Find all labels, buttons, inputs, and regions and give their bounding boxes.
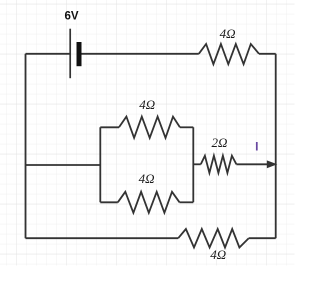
wire: middle horizontal to parallel block: [26, 164, 101, 166]
battery V1 thin plate (positive): [69, 29, 71, 78]
arrowhead (current direction): [267, 160, 278, 168]
resistor R3 4ohm (parallel bottom): [118, 192, 180, 213]
resistor R1 4ohm (top right): [199, 44, 259, 64]
wire: top branch lead-in: [100, 126, 119, 128]
svg-text:4Ω: 4Ω: [139, 171, 155, 186]
resistor R4 4ohm (bottom): [178, 229, 249, 248]
wire: left vertical: [25, 54, 27, 238]
svg-text:4Ω: 4Ω: [220, 26, 236, 41]
svg-text:6V: 6V: [64, 10, 78, 22]
wire: bottom branch lead-out: [180, 201, 194, 203]
wire: parallel block right edge: [192, 127, 194, 202]
resistor R2 4ohm (parallel top): [119, 117, 180, 138]
wire: bottom branch lead-in: [100, 201, 118, 203]
svg-text:2Ω: 2Ω: [211, 135, 227, 150]
wire: bottom right segment: [249, 237, 276, 239]
svg-text:4Ω: 4Ω: [139, 97, 155, 112]
wire: top right to corner: [259, 53, 276, 55]
wire: arrow shaft to right wire: [236, 163, 267, 165]
wire: right vertical: [275, 54, 277, 238]
wire: parallel block left edge: [99, 127, 101, 202]
wire: 2ohm branch lead-in: [193, 163, 201, 165]
wire: top branch lead-out: [180, 126, 193, 128]
resistor R5 2ohm: [201, 156, 237, 173]
svg-text:I: I: [255, 139, 258, 153]
battery V1 thick plate (negative): [77, 42, 82, 66]
svg-text:4Ω: 4Ω: [210, 247, 226, 262]
wire: top from battery to resistor R1: [82, 53, 199, 55]
wire: bottom horizontal left segment: [26, 237, 179, 239]
wire: top-left from battery to left corner: [26, 53, 71, 55]
